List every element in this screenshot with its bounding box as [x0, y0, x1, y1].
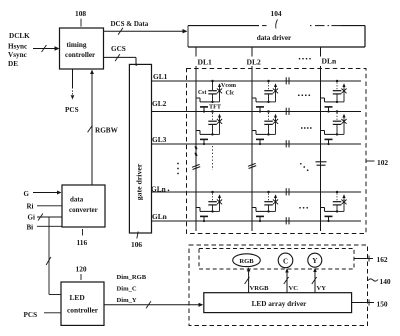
svg-text:108: 108 — [75, 9, 86, 18]
svg-text:controller: controller — [65, 51, 96, 59]
svg-text:Bi: Bi — [27, 224, 34, 232]
node DCLK — [9, 32, 30, 40]
label 150 with leader — [352, 300, 388, 309]
junction node on gate line — [267, 191, 270, 194]
wire video data branch to LED controller — [46, 217, 61, 295]
svg-text:RGBW: RGBW — [95, 127, 119, 135]
TFT transistor — [196, 207, 200, 209]
LED array driver 150 — [204, 293, 352, 313]
junction node on gate line — [336, 80, 339, 83]
junction node on gate line — [267, 80, 270, 83]
diagonal ellipsis between DL2 and DLn — [300, 163, 309, 171]
liquid crystal capacitor Clc with Vcom arrow — [219, 86, 221, 102]
label 140 with squiggle leader — [368, 277, 391, 286]
wire gate line GLn (row 5) — [152, 212, 362, 221]
pixel cell row1 col3 — [321, 80, 347, 113]
liquid crystal capacitor Clc with Vcom arrow — [343, 116, 345, 134]
svg-text:Hsync: Hsync — [8, 43, 28, 51]
wire VC supply — [284, 268, 298, 292]
wire VRGB supply — [245, 267, 270, 293]
svg-text:GLn: GLn — [152, 212, 167, 221]
wire gate line GL1 (row 1) — [152, 72, 362, 81]
backlight unit 140 dash-dot outline — [189, 245, 368, 326]
svg-text:140: 140 — [380, 277, 391, 286]
wire data line DL2 — [247, 47, 262, 231]
timing controller 108 — [60, 28, 104, 69]
pixel cell row1 col2 — [252, 80, 278, 113]
liquid crystal capacitor Clc with Vcom arrow — [275, 197, 277, 212]
svg-text:Dim_RGB: Dim_RGB — [117, 274, 147, 281]
storage capacitor Cst — [212, 194, 214, 201]
node Gi input with bus slash — [28, 214, 63, 222]
svg-text:DCS & Data: DCS & Data — [111, 20, 149, 28]
svg-text:PCS: PCS — [24, 311, 38, 319]
storage capacitor Cst — [336, 83, 338, 90]
svg-text:controller: controller — [67, 305, 99, 314]
junction node on gate line — [267, 110, 270, 113]
svg-text:Ri: Ri — [27, 203, 34, 211]
junction node on gate line — [211, 110, 214, 113]
svg-text:VY: VY — [317, 285, 327, 292]
svg-text:102: 102 — [377, 158, 388, 167]
svg-text:converter: converter — [69, 206, 98, 214]
TFT transistor — [252, 207, 256, 209]
svg-text:data driver: data driver — [257, 34, 292, 42]
break mark on data line DL2 — [248, 163, 256, 168]
svg-text:Dim_Y: Dim_Y — [117, 297, 137, 304]
svg-text:Y: Y — [312, 257, 317, 265]
wire DCS &amp; Data bus to data driver — [104, 20, 188, 35]
value label TFT — [209, 104, 222, 111]
TFT transistor — [252, 97, 256, 99]
pixel cell row1 col1 — [196, 80, 222, 113]
junction node on gate line — [336, 191, 339, 194]
svg-text:RGB: RGB — [239, 258, 254, 265]
storage capacitor Cst — [336, 113, 338, 120]
TFT transistor — [321, 130, 325, 132]
node Ri input — [27, 203, 63, 211]
svg-text:150: 150 — [377, 300, 388, 309]
LED RGB — [233, 254, 261, 267]
label 120 with leader — [76, 265, 87, 281]
svg-text:162: 162 — [377, 255, 388, 264]
TFT transistor — [196, 97, 200, 99]
break mark on gate line row 2 — [286, 108, 289, 115]
liquid crystal capacitor Clc with Vcom arrow — [343, 197, 345, 212]
pixel cell row3 col3 — [321, 191, 347, 222]
ellipsis dots row2 — [301, 127, 312, 129]
pixel cell row3 col2 — [252, 191, 278, 222]
pixel cell row3 col1 — [196, 191, 222, 222]
svg-text:116: 116 — [77, 238, 88, 247]
svg-text:GL3: GL3 — [152, 135, 167, 144]
liquid crystal capacitor Clc with Vcom arrow — [343, 86, 345, 102]
storage capacitor Cst — [336, 194, 338, 201]
ellipsis dots row1 — [298, 94, 310, 96]
wire sync inputs bus into timing controller — [33, 45, 60, 52]
node PCS input to LED controller — [24, 311, 62, 319]
wire VY supply — [312, 268, 326, 293]
svg-text:C: C — [283, 257, 288, 265]
ellipsis between DL2 and DLn labels — [299, 58, 311, 60]
vertical ellipsis left of panel — [177, 163, 179, 175]
svg-text:GLn: GLn — [151, 184, 166, 193]
svg-text:GL1: GL1 — [153, 72, 168, 81]
label 108 with leader — [75, 9, 86, 27]
storage capacitor Cst — [212, 81, 214, 90]
break mark on data line DL1 — [192, 164, 200, 169]
gate driver 106 — [129, 64, 151, 233]
svg-text:DLn: DLn — [322, 57, 338, 66]
svg-text:VRGB: VRGB — [250, 285, 270, 292]
node DE — [8, 60, 18, 68]
liquid crystal capacitor Clc with Vcom arrow — [219, 116, 221, 134]
wire RGBW from data converter to timing controller — [88, 70, 119, 186]
data converter 116 — [62, 185, 105, 227]
storage capacitor Cst — [268, 83, 270, 90]
partial pixel column dotted node (row 3, col 1) — [195, 146, 212, 170]
liquid crystal capacitor Clc with Vcom arrow — [275, 86, 277, 102]
svg-text:Gi: Gi — [28, 214, 35, 222]
storage capacitor Cst — [212, 113, 214, 120]
LED C (cyan) — [278, 253, 293, 268]
svg-text:DCLK: DCLK — [9, 32, 30, 40]
node Hsync — [8, 43, 28, 51]
TFT transistor — [321, 97, 325, 99]
junction node on gate line — [211, 80, 214, 83]
wire GCS to gate driver — [104, 45, 138, 66]
svg-text:GL2: GL2 — [152, 99, 167, 108]
pixel cell row2 col2 — [252, 110, 278, 145]
svg-text:TFT: TFT — [209, 104, 222, 111]
svg-text:timing: timing — [67, 41, 87, 49]
label 106 with leader — [131, 232, 142, 250]
TFT transistor — [252, 130, 256, 132]
break mark on data line DLn — [316, 162, 327, 165]
junction node on gate line — [211, 191, 214, 194]
node G input — [24, 190, 62, 198]
label 162 with leader — [354, 255, 388, 264]
pixel cell row2 col1 — [196, 110, 222, 145]
wire gate line GL2 (row 2) — [152, 99, 362, 112]
svg-text:gate driver: gate driver — [135, 163, 144, 200]
break mark on gate line row 4 — [286, 188, 289, 195]
LED array 162 dashed outline — [199, 249, 354, 270]
wire data line DL1 — [196, 47, 212, 231]
svg-text:Cst: Cst — [198, 90, 206, 96]
node Vsync — [8, 51, 28, 59]
break mark on gate line row 1 — [286, 77, 289, 84]
TFT transistor — [196, 130, 200, 132]
data driver 104 — [188, 26, 365, 47]
wire PCS output of timing controller — [65, 69, 79, 114]
pixel cell row2 col3 — [321, 110, 347, 145]
svg-text:120: 120 — [76, 265, 87, 274]
label 102 with leader — [366, 158, 388, 167]
value label Cst — [198, 90, 206, 96]
wire gate line GL3 (row 3) — [152, 135, 362, 144]
break mark on gate line row 5 — [286, 217, 289, 224]
label 116 with leader — [77, 229, 88, 247]
svg-text:PCS: PCS — [65, 106, 79, 114]
svg-text:GCS: GCS — [111, 45, 126, 53]
svg-text:VC: VC — [289, 285, 299, 292]
LED controller 120 — [61, 282, 104, 325]
wire gate line GLn (row 4) — [151, 184, 361, 193]
junction node on gate line — [336, 110, 339, 113]
node Vcom with arrow — [221, 83, 236, 89]
label 104 with leader — [271, 9, 282, 29]
svg-text:Clc: Clc — [226, 91, 235, 97]
storage capacitor Cst — [268, 194, 270, 201]
svg-text:106: 106 — [131, 240, 142, 249]
svg-text:LED: LED — [70, 293, 85, 302]
svg-text:104: 104 — [271, 9, 282, 18]
ellipsis dots bottom row — [299, 207, 308, 209]
break mark on gate line row 3 — [286, 140, 289, 147]
svg-text:LED array driver: LED array driver — [252, 300, 308, 308]
svg-text:Vsync: Vsync — [8, 51, 28, 59]
wire dimming bus Dim_RGB / Dim_C / Dim_Y — [104, 274, 203, 309]
liquid crystal capacitor Clc with Vcom arrow — [219, 197, 221, 212]
svg-text:DL2: DL2 — [247, 58, 262, 67]
liquid crystal capacitor Clc with Vcom arrow — [275, 116, 277, 134]
svg-text:Dim_C: Dim_C — [117, 286, 137, 293]
svg-text:DE: DE — [8, 60, 18, 68]
svg-text:data: data — [70, 196, 84, 204]
storage capacitor Cst — [268, 113, 270, 120]
svg-text:DL1: DL1 — [198, 58, 213, 67]
wire data line DLn — [321, 47, 338, 231]
LCD panel 102 dashed outline — [187, 69, 367, 234]
node Bi input — [27, 224, 63, 232]
LED Y (yellow) — [308, 253, 322, 267]
svg-text:Vcom: Vcom — [221, 83, 236, 89]
value label Clc — [226, 91, 235, 97]
svg-text:G: G — [24, 190, 30, 198]
TFT transistor — [321, 207, 325, 209]
